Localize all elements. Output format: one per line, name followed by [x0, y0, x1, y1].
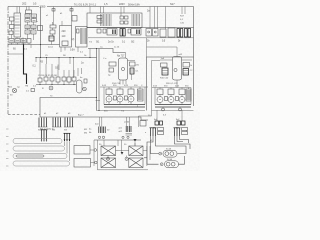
choke stack L1	[49, 25, 56, 41]
pickup box P1	[74, 146, 97, 155]
capacitor CH3	[179, 89, 185, 95]
choke Dr2	[177, 29, 183, 38]
wire speaker feed line	[94, 139, 141, 141]
socket VH1	[157, 97, 163, 103]
cable loop 3	[13, 154, 67, 159]
divider tall box A	[14, 24, 21, 26]
label top 1,5	[104, 3, 108, 6]
label below row right	[147, 40, 181, 43]
wire anode feed	[88, 49, 126, 53]
label scatter top	[37, 13, 63, 23]
capacitor C7	[72, 16, 77, 22]
switch array S1	[25, 14, 37, 22]
wire stage G top	[100, 86, 148, 88]
label connector row bottom	[38, 129, 68, 132]
wire loop riser 4	[69, 142, 71, 161]
socket VH2	[168, 97, 174, 103]
wire stub x70	[69, 58, 71, 65]
fuse F1	[159, 150, 177, 157]
fuse F2	[160, 161, 178, 168]
pilot lamp P1	[162, 108, 165, 111]
wire V3 right link	[182, 59, 193, 61]
wire HT bus	[87, 27, 194, 29]
tick double drop	[96, 100, 101, 102]
label below row left	[96, 42, 135, 44]
meter M2 small	[83, 87, 87, 91]
label 70	[50, 96, 53, 98]
amplifier section boundary	[147, 57, 194, 111]
label Asp	[78, 114, 84, 117]
wire V3 left link	[160, 59, 173, 61]
wire v x94	[93, 140, 95, 166]
label 1a0	[161, 58, 165, 60]
label M1 right	[84, 129, 88, 135]
label top right row	[128, 4, 140, 7]
stage H baseline	[155, 105, 191, 108]
label left text row	[8, 86, 37, 89]
wire G cap feeds	[109, 87, 140, 89]
tube V3	[173, 57, 182, 81]
wire pilot stubs	[163, 107, 180, 111]
wire nest 1	[147, 136, 159, 164]
wire stubs resistor row up	[40, 58, 74, 79]
wire stage H top	[152, 87, 191, 89]
speaker LS2	[129, 146, 143, 156]
label R3	[40, 62, 44, 64]
label top far right	[170, 3, 175, 6]
wire loop1 drops dots	[41, 140, 47, 141]
junction arrow mid	[121, 152, 124, 155]
speaker LS3	[101, 158, 116, 168]
capacitor C17	[109, 68, 114, 72]
label V3 left under	[160, 78, 169, 80]
wire nest left in	[144, 157, 147, 159]
label 60	[13, 48, 28, 51]
label bottom scatter	[99, 140, 153, 146]
pickup box P2	[74, 159, 97, 168]
transformer TrG	[138, 89, 144, 101]
wire nest 5	[177, 136, 183, 142]
frame right border	[193, 7, 195, 107]
connector X3	[64, 118, 74, 128]
wire thick step	[24, 45, 27, 85]
label scatter mid	[45, 55, 87, 57]
connector J3	[145, 128, 164, 137]
label 4a0	[89, 124, 99, 135]
label fuse	[166, 148, 172, 162]
socket VG1	[106, 96, 112, 102]
label stage G pins	[106, 102, 129, 104]
capacitor C16	[109, 62, 116, 66]
resistor row mid	[38, 77, 76, 82]
capacitor C19	[161, 63, 168, 67]
stage G baseline	[104, 105, 145, 108]
wire V2 pins	[120, 80, 126, 85]
label V3 right	[190, 65, 194, 72]
label 0,5A	[70, 49, 75, 52]
wire left bus	[8, 44, 60, 46]
cable loop 2	[13, 146, 65, 151]
wire stub x46.5	[46, 58, 48, 65]
terminal block TB2	[176, 119, 185, 129]
wire stub B cluster	[52, 22, 53, 45]
resistor R21	[140, 121, 146, 127]
wire double drop	[97, 49, 100, 111]
stage G frame	[104, 87, 145, 105]
resistor R18 dark	[183, 69, 189, 76]
label top centre row	[74, 4, 97, 7]
wire stub T1 top	[17, 7, 20, 14]
label C6	[55, 68, 59, 70]
amplifier inner boundary	[152, 61, 161, 96]
resistor RG between	[114, 96, 128, 100]
wire loop riser 3	[66, 142, 68, 154]
label 2a	[147, 11, 150, 13]
connector J1	[99, 117, 110, 133]
relay K2	[107, 29, 117, 36]
transformer TrH	[186, 89, 191, 101]
label stage G row	[102, 85, 143, 87]
label V2 right	[136, 65, 140, 73]
socket VG2	[117, 96, 123, 102]
wire under-transformer line	[88, 37, 194, 39]
row tick f	[6, 165, 9, 167]
capacitor CG3	[128, 89, 134, 95]
speaker LS4	[129, 158, 143, 168]
wire nest 2	[151, 136, 159, 154]
label tube V2	[117, 56, 125, 58]
row tick a	[6, 128, 9, 130]
capacitor C14 pill	[77, 80, 83, 93]
mains transformer panel	[87, 13, 142, 28]
choke Dr1	[120, 29, 125, 37]
frame left border	[7, 7, 9, 115]
connector J2	[126, 117, 133, 135]
label a01 a02	[119, 128, 123, 134]
capacitor C8	[97, 16, 102, 19]
wire v x97.4	[96, 140, 98, 170]
relay K4	[146, 29, 158, 37]
capacitor C15	[84, 79, 87, 83]
wire between speakers	[116, 140, 129, 152]
wire v x71.5	[70, 7, 73, 16]
wire nest 7	[180, 136, 189, 143]
connector X2	[52, 118, 62, 128]
wire stub x90	[89, 49, 91, 58]
wire stub S1S2	[28, 14, 34, 41]
switch array S2	[25, 25, 36, 34]
label resistor row	[38, 75, 58, 77]
capacitor C13	[128, 29, 131, 33]
label 1a	[81, 63, 84, 65]
stage H frame	[155, 88, 191, 105]
frame top border	[8, 6, 194, 8]
cable junction arrows	[64, 133, 71, 142]
label under row	[42, 88, 44, 90]
tube V2	[119, 58, 128, 80]
label connector row	[44, 113, 71, 115]
wire lower bus	[97, 110, 194, 112]
label under V2	[112, 83, 121, 85]
resistor R13	[130, 68, 134, 74]
voltage selector K1	[60, 26, 72, 48]
label under V3	[166, 83, 179, 85]
wire stage H left drop	[139, 95, 152, 127]
socket circles J1	[98, 136, 104, 138]
fuse box F0	[26, 7, 32, 14]
wire v x53.5	[52, 7, 55, 26]
box c2 area	[38, 26, 43, 31]
socket circles J2	[122, 136, 129, 138]
socket dots G	[109, 99, 132, 100]
wire V3 cathode	[176, 80, 178, 88]
socket VH3	[179, 97, 185, 103]
label 0,1 mid	[33, 66, 37, 68]
label a02	[179, 54, 183, 56]
choke Dr3	[185, 29, 191, 38]
wire H cap feeds	[160, 88, 189, 90]
wire stub bottom row	[12, 43, 30, 45]
wire stubs x78 x81.5	[78, 68, 83, 79]
wire tube V3 anode	[147, 47, 178, 57]
wire v x40.5	[40, 7, 42, 58]
capacitor CH2	[168, 89, 174, 95]
row tick d	[6, 150, 9, 152]
socket dots H	[160, 99, 183, 100]
wire speaker stubs	[104, 140, 135, 160]
resistor R15 dark	[162, 68, 168, 75]
meter M1	[10, 88, 17, 96]
capacitor C12	[103, 29, 106, 33]
socket VG3	[128, 96, 134, 102]
capacitor CG1	[106, 89, 112, 95]
label grid	[108, 75, 111, 77]
wire stub C area	[61, 21, 78, 52]
resistor R1	[9, 31, 13, 35]
transformer T1 tall box	[14, 13, 21, 37]
chassis dashed boundary	[8, 114, 40, 116]
cable drop group 1	[41, 130, 48, 141]
wire G pins	[109, 95, 131, 105]
resistor R17	[183, 63, 190, 68]
cable loop 4	[13, 161, 70, 166]
wire tube V2 anode	[125, 53, 127, 59]
wire nest 3	[156, 136, 187, 154]
wire stub x31	[30, 45, 32, 49]
capacitor C1	[10, 17, 15, 21]
resistor RH between	[165, 97, 179, 101]
wire row line	[36, 84, 76, 86]
wire feeds right	[150, 7, 185, 30]
label stage G under	[104, 110, 125, 113]
label 0,1 b	[26, 89, 35, 93]
resistor R12	[130, 62, 136, 66]
hatch bottom row	[10, 41, 25, 43]
row tick e	[6, 158, 9, 160]
wire stub x36	[35, 58, 37, 63]
wire loop riser 2	[64, 142, 66, 146]
transformer D winding box	[76, 27, 88, 48]
label N17 rows	[180, 16, 185, 25]
wire ground corner	[40, 98, 148, 121]
relay K5	[160, 28, 175, 37]
label top gap 2050	[40, 4, 46, 8]
junction dots mid row	[40, 84, 75, 85]
wire v x146.5 stub	[146, 38, 148, 57]
wire H pins	[160, 95, 182, 105]
winding W2	[132, 14, 140, 26]
jack J5 circle	[49, 86, 53, 90]
capacitor CG2	[117, 89, 123, 95]
capacitor C9	[97, 20, 102, 23]
pilot lamp P2	[179, 108, 182, 111]
capacitor row bottom	[9, 39, 31, 44]
wire TB drops	[157, 110, 182, 121]
connector X1	[38, 118, 48, 128]
label scatter pass2	[8, 12, 188, 133]
label top margin 202	[22, 2, 27, 6]
label top margin 0,5	[33, 3, 37, 6]
wire nest 6	[179, 156, 185, 164]
hatch switch array	[26, 16, 36, 32]
junction mark speaker line	[134, 139, 137, 142]
wire nest 4	[175, 136, 191, 149]
cable loop 1	[13, 139, 62, 144]
wire x71.5 ext	[71, 16, 73, 26]
row tick c	[6, 143, 9, 145]
terminal circle LS2	[125, 157, 128, 160]
terminal block TB1	[153, 119, 163, 129]
switch bank S3	[120, 16, 128, 24]
capacitor C11	[97, 29, 101, 33]
wire stub C1C2	[12, 21, 24, 45]
wire panel feeds	[90, 7, 124, 17]
label (2)	[72, 39, 75, 41]
wire stubs resistor row down	[40, 81, 74, 85]
wire speaker bottom	[97, 169, 148, 171]
label stage H row	[153, 85, 189, 87]
junction dots left	[23, 44, 100, 111]
label cable head	[40, 128, 55, 131]
row tick b	[6, 136, 9, 138]
wire border link y54	[8, 53, 24, 54]
wire stub x59	[58, 58, 60, 71]
speaker LS1	[101, 146, 116, 156]
relay K3	[131, 29, 141, 36]
winding W1	[101, 14, 112, 26]
wire stub x73.5	[73, 58, 75, 79]
terminal circle LS1	[106, 157, 109, 160]
capacitor C2	[10, 25, 15, 29]
capacitor CH1	[157, 89, 163, 95]
wire V2 right link	[128, 61, 136, 81]
label top 220V	[119, 3, 125, 6]
wire speaker right col	[143, 146, 150, 166]
connector J4	[174, 128, 188, 137]
wire mid bus	[36, 57, 97, 59]
